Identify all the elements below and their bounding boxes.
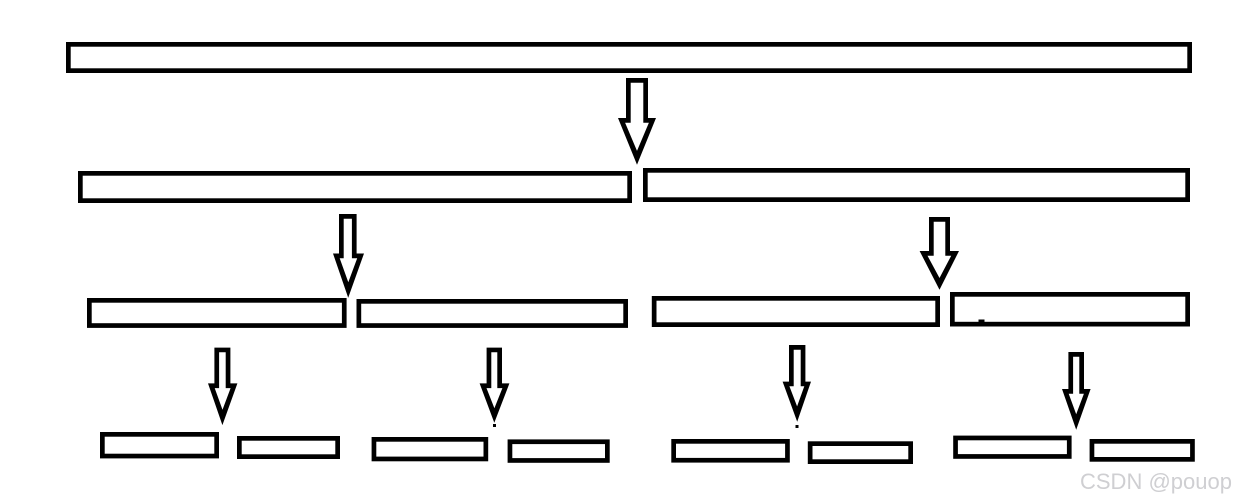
- stray dot under arrow A6 tip: [796, 425, 799, 428]
- level-4 array box 8: [1092, 441, 1193, 459]
- arrow A2 (level2-left to level3): [333, 214, 364, 298]
- level-4 array box 2: [239, 438, 337, 456]
- arrow A4 (level3 box1 to level4): [208, 348, 237, 426]
- level-2 right array box: [645, 170, 1187, 199]
- level-3 array box 1: [89, 300, 344, 325]
- stray tick inside level-3 box 4: [979, 320, 985, 325]
- level-4 array box 3: [374, 439, 486, 459]
- level-1 array box: [68, 44, 1189, 70]
- level-4 array box 6: [810, 444, 911, 462]
- level-4 array box 1: [102, 434, 216, 456]
- arrow A3 (level2-right to level3): [920, 217, 959, 290]
- arrow A1 (level1 to level2): [618, 78, 656, 165]
- arrow A5 (level3 box2 to level4): [480, 348, 510, 423]
- level-4 array box 7: [956, 438, 1070, 457]
- level-3 array box 3: [654, 298, 938, 324]
- stray dot under arrow A5 tip: [493, 424, 496, 427]
- level-4 array box 4: [510, 442, 607, 461]
- svg-text:CSDN @pouop: CSDN @pouop: [1080, 469, 1232, 494]
- level-2 left array box: [80, 173, 629, 200]
- level-3 array box 2: [359, 301, 626, 325]
- level-3 array box 4: [952, 294, 1187, 324]
- arrow A6 (level3 box3 to level4): [783, 345, 811, 422]
- level-4 array box 5: [674, 441, 788, 460]
- arrow A7 (level3 box4 to level4): [1062, 352, 1091, 430]
